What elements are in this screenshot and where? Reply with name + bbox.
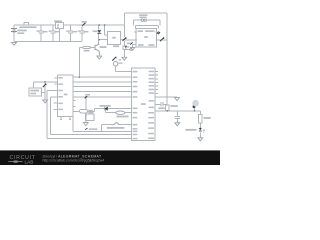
svg-text:LAB: LAB bbox=[25, 160, 34, 165]
svg-text:http://circuitlab.com/circuit/: http://circuitlab.com/circuit/pg5jk5kq2w… bbox=[43, 159, 105, 163]
